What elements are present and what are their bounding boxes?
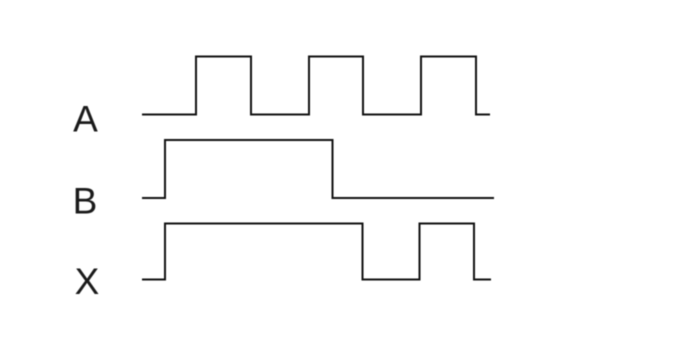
svg-text:B: B	[73, 181, 98, 222]
svg-text:X: X	[75, 261, 100, 302]
svg-text:A: A	[73, 99, 98, 140]
